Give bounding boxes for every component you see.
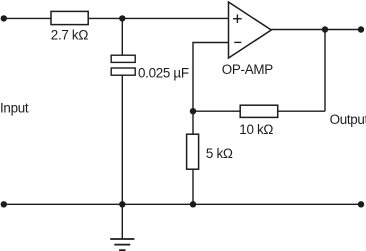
svg-text:0.025 µF: 0.025 µF (138, 66, 189, 81)
svg-text:Input: Input (0, 100, 29, 115)
svg-text:2.7 kΩ: 2.7 kΩ (51, 28, 89, 43)
svg-text:5 kΩ: 5 kΩ (206, 146, 233, 161)
node lower input terminal dot (1, 201, 7, 207)
op-amp noninverting pin + symbol (233, 14, 242, 23)
node junction top rail / capacitor (119, 15, 125, 21)
node junction output / feedback (322, 26, 328, 32)
wire ground stem (121, 204, 123, 239)
resistor R2 10 kΩ (240, 105, 278, 117)
node junction bottom rail / 5 kΩ (190, 201, 196, 207)
node junction bottom rail / ground (119, 201, 125, 207)
wire bottom ground rail (4, 203, 361, 205)
ground symbol (110, 239, 134, 250)
wire capacitor branch lower segment (121, 75, 123, 204)
capacitor C1 0.025 µF bottom plate (111, 68, 135, 75)
op-amp U1 triangle (229, 2, 272, 58)
wire feedback vertical segment up to output node (324, 30, 326, 112)
wire 5 kΩ branch down to ground rail (192, 111, 194, 204)
svg-text:10 kΩ: 10 kΩ (239, 122, 273, 137)
node lower output terminal dot (358, 201, 364, 207)
resistor R3 5 kΩ (187, 134, 199, 169)
capacitor C1 0.025 µF top plate (111, 55, 135, 62)
node junction inverting input / 10 kΩ / 5 kΩ (190, 108, 196, 114)
wire inverting input horizontal segment (193, 43, 229, 112)
wire feedback horizontal segment through 10 kΩ (193, 110, 325, 112)
op-amp inverting pin − symbol (234, 41, 241, 43)
node output terminal dot (358, 26, 364, 32)
wire capacitor branch upper segment (121, 18, 123, 55)
node input terminal dot (1, 15, 7, 21)
wire top rail from input to op-amp noninverting input (4, 17, 229, 19)
resistor R1 2.7 kΩ (51, 11, 88, 24)
wire op-amp output to output terminal (271, 29, 361, 31)
svg-text:Output: Output (330, 112, 366, 127)
svg-text:OP-AMP: OP-AMP (222, 62, 273, 77)
